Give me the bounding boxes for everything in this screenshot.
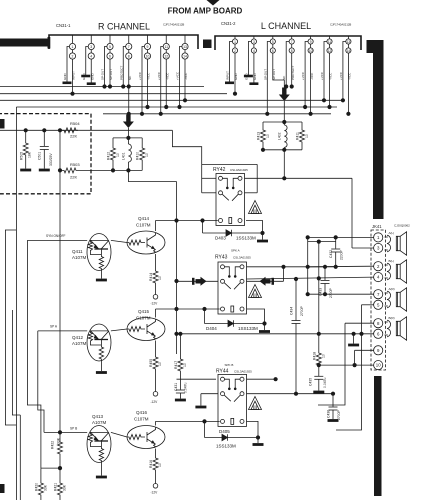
svg-text:GND: GND xyxy=(234,73,238,81)
svg-text:+VCC: +VCC xyxy=(339,71,343,80)
svg-text:FROM AMP BOARD: FROM AMP BOARD xyxy=(168,7,243,16)
svg-text:B(L): B(L) xyxy=(389,259,395,263)
svg-text:R422: R422 xyxy=(51,441,55,449)
svg-text:SP A: SP A xyxy=(50,325,58,329)
svg-text:4: 4 xyxy=(90,55,92,59)
svg-text:Q412: Q412 xyxy=(72,335,84,340)
svg-text:22K: 22K xyxy=(70,134,77,139)
svg-text:5: 5 xyxy=(272,40,274,44)
svg-text:GND: GND xyxy=(253,73,257,81)
svg-text:6: 6 xyxy=(377,331,380,336)
svg-text:R417: R417 xyxy=(174,361,178,369)
svg-text:Q411: Q411 xyxy=(72,249,83,254)
svg-text:CN31-1: CN31-1 xyxy=(56,23,71,28)
svg-text:3: 3 xyxy=(377,246,380,251)
svg-text:PROTECT: PROTECT xyxy=(291,65,295,80)
svg-text:GND: GND xyxy=(63,73,67,81)
svg-text:GND: GND xyxy=(244,73,248,81)
svg-text:SP B: SP B xyxy=(70,427,77,431)
svg-text:+VCC: +VCC xyxy=(301,71,305,80)
svg-text:1SS133M: 1SS133M xyxy=(236,236,256,241)
svg-text:14: 14 xyxy=(183,55,187,59)
svg-text:10: 10 xyxy=(158,362,162,366)
svg-text:L401: L401 xyxy=(122,152,126,160)
svg-text:NC: NC xyxy=(282,75,286,80)
svg-text:11: 11 xyxy=(328,40,332,44)
svg-text:7: 7 xyxy=(128,45,130,49)
svg-text:+VCC: +VCC xyxy=(320,71,324,80)
svg-text:5: 5 xyxy=(109,45,111,49)
svg-text:C107M: C107M xyxy=(134,417,149,422)
svg-text:R414: R414 xyxy=(149,273,153,281)
svg-text:-12V: -12V xyxy=(151,491,159,495)
svg-text:C434: C434 xyxy=(290,307,294,315)
svg-text:10: 10 xyxy=(116,153,120,157)
svg-text:CSL3A01925: CSL3A01925 xyxy=(233,256,251,260)
svg-text:1: 1 xyxy=(234,40,236,44)
svg-text:R416: R416 xyxy=(149,460,153,468)
svg-text:SPK B: SPK B xyxy=(225,363,234,367)
svg-text:1SS133M: 1SS133M xyxy=(216,444,236,449)
svg-text:2700P: 2700P xyxy=(300,305,304,316)
svg-text:Q414: Q414 xyxy=(138,216,150,221)
svg-text:3: 3 xyxy=(253,40,255,44)
svg-text:SYN ON/OFF: SYN ON/OFF xyxy=(46,234,66,238)
svg-text:13: 13 xyxy=(183,45,187,49)
svg-text:2700P: 2700P xyxy=(337,409,341,420)
svg-text:-VCC: -VCC xyxy=(165,72,169,80)
svg-text:R504: R504 xyxy=(70,121,80,126)
svg-text:10: 10 xyxy=(305,134,309,138)
svg-text:9: 9 xyxy=(377,348,380,353)
svg-text:6: 6 xyxy=(272,49,274,53)
svg-text:12: 12 xyxy=(328,49,332,53)
svg-text:L CHANNEL: L CHANNEL xyxy=(261,21,311,31)
svg-text:CJF1740A0212B: CJF1740A0212B xyxy=(330,23,351,27)
svg-text:R412: R412 xyxy=(107,152,111,160)
svg-text:SPK A: SPK A xyxy=(231,249,240,253)
svg-text:0.047u: 0.047u xyxy=(184,383,188,393)
svg-text:6: 6 xyxy=(109,55,111,59)
svg-text:8: 8 xyxy=(377,321,380,326)
svg-text:-VCC: -VCC xyxy=(329,72,333,80)
svg-text:10: 10 xyxy=(309,49,313,53)
svg-text:RY43: RY43 xyxy=(215,255,228,261)
svg-text:9: 9 xyxy=(147,45,149,49)
svg-text:4: 4 xyxy=(377,275,380,280)
svg-text:10: 10 xyxy=(376,363,381,368)
svg-text:33K: 33K xyxy=(44,484,48,491)
svg-text:33K: 33K xyxy=(57,437,61,444)
svg-text:10: 10 xyxy=(158,463,162,467)
svg-text:3: 3 xyxy=(90,45,92,49)
svg-text:9: 9 xyxy=(310,40,312,44)
svg-text:-VCC: -VCC xyxy=(147,72,151,80)
svg-text:2: 2 xyxy=(234,49,236,53)
svg-text:CJJ0Q0062: CJJ0Q0062 xyxy=(394,224,410,228)
svg-text:0.047u: 0.047u xyxy=(323,378,327,388)
svg-text:10: 10 xyxy=(146,55,150,59)
svg-text:Q413: Q413 xyxy=(92,414,104,419)
svg-text:2: 2 xyxy=(377,264,380,269)
svg-text:-12V: -12V xyxy=(151,400,159,404)
svg-text:C107M: C107M xyxy=(136,223,151,228)
svg-text:18K: 18K xyxy=(28,151,32,158)
svg-text:C436: C436 xyxy=(327,410,331,418)
svg-text:INPUT: INPUT xyxy=(226,71,230,80)
svg-text:1: 1 xyxy=(377,235,380,240)
svg-text:10: 10 xyxy=(183,363,187,367)
svg-text:A107M: A107M xyxy=(72,255,87,260)
svg-text:R420: R420 xyxy=(35,483,39,491)
svg-text:+VCC: +VCC xyxy=(157,71,161,80)
svg-text:D403: D403 xyxy=(215,236,226,241)
svg-text:CN31-2: CN31-2 xyxy=(221,21,236,26)
svg-text:D404: D404 xyxy=(206,326,217,331)
svg-text:R410: R410 xyxy=(136,152,140,160)
svg-text:10: 10 xyxy=(321,354,325,358)
svg-text:10: 10 xyxy=(145,153,149,157)
svg-text:R503: R503 xyxy=(70,162,80,167)
svg-text:R CHANNEL: R CHANNEL xyxy=(98,22,150,32)
svg-text:C107M: C107M xyxy=(136,316,151,321)
svg-text:-VCC: -VCC xyxy=(310,72,314,80)
svg-text:R418: R418 xyxy=(312,352,316,360)
svg-text:2700P: 2700P xyxy=(329,287,333,298)
svg-text:C431: C431 xyxy=(174,383,178,391)
svg-text:1SS133M: 1SS133M xyxy=(238,326,258,331)
svg-text:10: 10 xyxy=(158,276,162,280)
svg-text:C435: C435 xyxy=(308,378,312,386)
svg-text:14: 14 xyxy=(347,49,351,53)
svg-text:8: 8 xyxy=(128,55,130,59)
svg-text:RY42: RY42 xyxy=(213,167,226,173)
svg-text:CSL3A01925: CSL3A01925 xyxy=(230,168,248,172)
svg-text:R413: R413 xyxy=(257,132,261,140)
svg-text:7: 7 xyxy=(377,292,380,297)
svg-text:4: 4 xyxy=(253,49,255,53)
svg-text:5: 5 xyxy=(377,302,380,307)
svg-text:1: 1 xyxy=(72,45,74,49)
svg-text:12: 12 xyxy=(164,55,168,59)
svg-text:-VCC: -VCC xyxy=(348,72,352,80)
svg-text:GND: GND xyxy=(90,73,94,81)
svg-text:Q415: Q415 xyxy=(138,309,150,314)
svg-text:7: 7 xyxy=(291,40,293,44)
svg-text:SP OUT: SP OUT xyxy=(109,69,113,80)
svg-text:SP OUT: SP OUT xyxy=(101,69,105,80)
svg-text:JK41: JK41 xyxy=(372,224,382,229)
svg-text:C501: C501 xyxy=(38,152,42,160)
svg-text:2: 2 xyxy=(72,55,74,59)
svg-text:R505: R505 xyxy=(20,152,24,160)
svg-text:Q416: Q416 xyxy=(136,410,148,415)
svg-text:GND: GND xyxy=(82,73,86,81)
svg-text:L402: L402 xyxy=(278,132,282,140)
svg-text:8: 8 xyxy=(291,49,293,53)
svg-text:A107M: A107M xyxy=(92,420,107,425)
svg-text:-12V: -12V xyxy=(151,302,159,306)
svg-text:10: 10 xyxy=(266,134,270,138)
svg-text:C432: C432 xyxy=(329,250,333,258)
svg-text:330/25V: 330/25V xyxy=(49,153,53,166)
svg-text:22K: 22K xyxy=(70,175,77,180)
svg-text:-VCC: -VCC xyxy=(184,72,188,80)
svg-text:13: 13 xyxy=(347,40,351,44)
svg-text:+VCC: +VCC xyxy=(176,71,180,80)
svg-text:33K: 33K xyxy=(63,484,67,491)
svg-text:A107M: A107M xyxy=(72,341,87,346)
svg-text:D405: D405 xyxy=(219,429,230,434)
svg-text:11: 11 xyxy=(164,45,168,49)
svg-text:RY44: RY44 xyxy=(216,369,229,375)
svg-text:PROTECT: PROTECT xyxy=(119,65,123,80)
svg-text:+VCC: +VCC xyxy=(138,71,142,80)
svg-text:A(R): A(R) xyxy=(389,287,395,291)
svg-text:R411: R411 xyxy=(296,132,300,140)
svg-text:R455: R455 xyxy=(149,359,153,367)
svg-text:CSL3A01925: CSL3A01925 xyxy=(234,370,252,374)
svg-text:A(L): A(L) xyxy=(389,231,395,235)
svg-text:R421: R421 xyxy=(54,483,58,491)
svg-text:B(R): B(R) xyxy=(389,316,395,320)
svg-text:INPUT: INPUT xyxy=(72,71,76,80)
svg-text:SP OUT: SP OUT xyxy=(263,69,267,80)
svg-text:2200P: 2200P xyxy=(340,249,344,260)
svg-text:CJF1740A0212B: CJF1740A0212B xyxy=(163,23,184,27)
